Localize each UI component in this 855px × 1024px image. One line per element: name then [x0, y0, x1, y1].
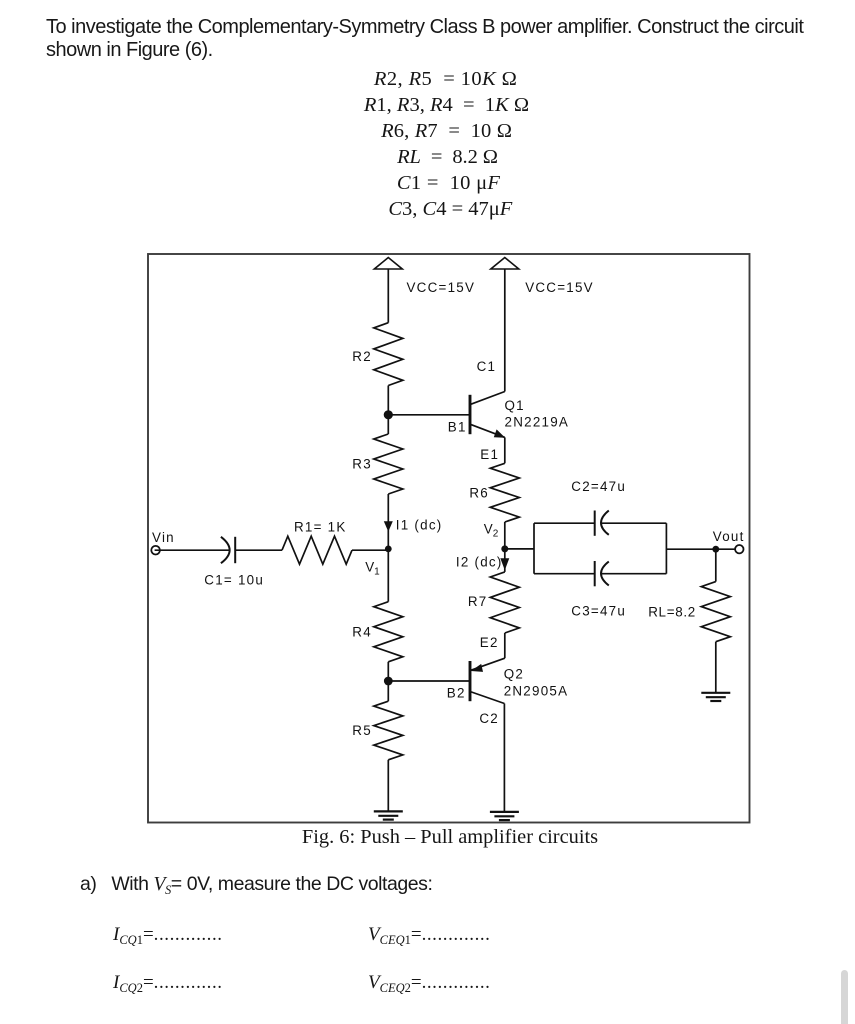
svg-text:R1= 1K: R1= 1K [294, 519, 347, 534]
equation line 1 [146, 68, 746, 90]
wire VCC left to R2 [387, 269, 389, 323]
ground (Q2 collector) [490, 812, 519, 820]
figure caption [147, 826, 753, 848]
resistor RL [701, 582, 730, 642]
svg-text:B1: B1 [448, 419, 467, 434]
wire node B1 to R3 [387, 415, 389, 434]
terminal Vout [735, 545, 743, 553]
svg-text:R7: R7 [468, 594, 488, 609]
node B1 junction dot [384, 410, 393, 419]
equation line 5 [149, 172, 749, 194]
circuit outer frame [148, 254, 750, 823]
cap block bottom-left wire [534, 573, 595, 575]
blank VCEQ1 [368, 924, 490, 947]
capacitor C2 flat plate [594, 511, 596, 536]
wire R5 to ground [387, 760, 389, 812]
scrollbar thumb [841, 970, 848, 1024]
wire node V2 to cap block [505, 548, 534, 550]
svg-text:V1: V1 [365, 559, 380, 577]
svg-text:I2 (dc): I2 (dc) [456, 554, 503, 569]
power symbol VCC (left rail) [374, 258, 402, 270]
wire R1 to node V1 [352, 549, 388, 551]
wire node B2 to Q2 base [388, 680, 470, 682]
cap block right wire [665, 523, 667, 574]
item a) heading [80, 874, 432, 898]
resistor R5 [374, 701, 403, 760]
wire R3 to node V1 [387, 494, 389, 549]
power symbol VCC (right rail) [491, 258, 519, 270]
svg-text:E1: E1 [480, 447, 499, 462]
blank ICQ2 [113, 972, 223, 995]
capacitor C3 flat plate [594, 561, 596, 586]
svg-text:R2: R2 [352, 349, 372, 364]
wire C1 to R1 [235, 549, 282, 551]
capacitor C2 curved plate [601, 511, 609, 535]
transistor Q2 base bar [469, 661, 472, 701]
svg-text:RL=8.2: RL=8.2 [648, 605, 696, 620]
resistor R4 [374, 602, 403, 662]
equation line 2 [147, 94, 747, 116]
current arrow I2 [500, 558, 509, 570]
node Vout junction dot [712, 546, 719, 553]
resistor R6 [490, 463, 519, 522]
cap block top-right wire [601, 522, 666, 524]
svg-text:C1= 10u: C1= 10u [204, 572, 264, 587]
wire RL to ground [715, 642, 717, 693]
cap block top-left wire [534, 522, 595, 524]
ground (load) [701, 693, 730, 701]
ground (left rail) [374, 811, 403, 819]
equation line 3 [147, 120, 747, 142]
wire node V2 to R7 [504, 549, 506, 572]
svg-text:C2: C2 [479, 711, 499, 726]
resistor R3 [374, 434, 403, 494]
svg-text:V2: V2 [484, 521, 499, 539]
blank VCEQ2 [368, 972, 490, 995]
resistor R2 [374, 323, 403, 386]
blank ICQ1 [113, 924, 223, 947]
terminal Vin [151, 546, 160, 555]
svg-text:Q2: Q2 [504, 667, 524, 682]
wire cap block to node Vout [666, 548, 715, 550]
svg-text:Vin: Vin [152, 530, 175, 545]
wire node B1 to Q1 base [388, 414, 470, 416]
transistor Q2 emitter lead [470, 658, 505, 670]
wire R2 to node B1 [387, 386, 389, 415]
svg-text:C3=47u: C3=47u [571, 603, 626, 618]
capacitor C1 (input, flat plate) [234, 537, 236, 563]
node B2 junction dot [384, 677, 393, 686]
svg-text:VCC=15V: VCC=15V [525, 280, 594, 295]
svg-text:B2: B2 [447, 685, 466, 700]
wire node Vout to RL [715, 549, 717, 581]
svg-text:C1: C1 [477, 359, 497, 374]
wire VCC right to Q1 collector [504, 269, 506, 392]
svg-text:I1 (dc): I1 (dc) [396, 518, 443, 533]
svg-text:C2=47u: C2=47u [571, 479, 626, 494]
equation line 4 [148, 146, 748, 168]
current arrow I1 [384, 521, 393, 531]
capacitor C3 curved plate [601, 562, 609, 586]
cap block bottom-right wire [601, 573, 666, 575]
wire Vin to C1 [155, 549, 230, 551]
transistor Q1 base bar [469, 395, 472, 434]
svg-text:R6: R6 [469, 485, 489, 500]
wire Q2 collector to ground [503, 704, 505, 812]
svg-text:R4: R4 [352, 624, 372, 639]
svg-text:E2: E2 [480, 635, 499, 650]
svg-text:2N2219A: 2N2219A [505, 415, 570, 430]
wire node Vout to terminal [716, 548, 735, 550]
capacitor C1 (input, curved plate) [221, 537, 230, 563]
wire node B2 to R5 [387, 681, 389, 701]
wire R4 to node B2 [387, 662, 389, 681]
transistor Q1 emitter arrow [494, 429, 505, 437]
wire node V1 to R4 [387, 549, 389, 602]
intro paragraph [46, 16, 803, 62]
svg-text:2N2905A: 2N2905A [504, 683, 569, 698]
transistor Q1 collector lead [470, 392, 505, 405]
transistor Q2 collector lead [470, 692, 504, 704]
equation line 6 [150, 198, 750, 220]
svg-text:Q1: Q1 [505, 398, 525, 413]
resistor R1 [282, 536, 352, 564]
wire R6 to node V2 [504, 522, 506, 549]
transistor Q2 emitter arrow [471, 664, 483, 672]
svg-text:R5: R5 [352, 723, 372, 738]
node V2 junction dot [501, 545, 508, 552]
svg-text:R3: R3 [352, 457, 372, 472]
wire Q1 emitter to R6 [504, 437, 506, 463]
resistor R7 [490, 572, 519, 633]
node V1 junction dot [385, 546, 392, 553]
wire R7 to Q2 emitter [504, 633, 506, 658]
svg-text:VCC=15V: VCC=15V [407, 280, 476, 295]
cap block left wire [533, 523, 535, 574]
svg-text:Vout: Vout [713, 529, 745, 544]
transistor Q1 emitter lead [470, 424, 505, 437]
